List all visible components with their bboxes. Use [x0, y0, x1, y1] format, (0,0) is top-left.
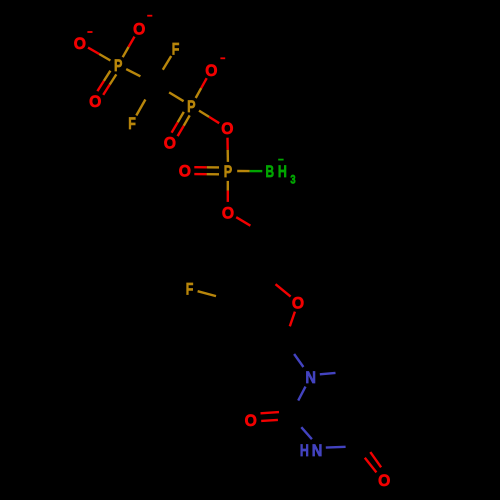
svg-text:N: N	[312, 441, 323, 460]
svg-text:H: H	[300, 441, 309, 460]
svg-text:O: O	[378, 471, 390, 490]
svg-text:O: O	[179, 162, 191, 181]
svg-text:F: F	[172, 40, 180, 59]
svg-text:P: P	[114, 56, 122, 75]
svg-text:F: F	[186, 279, 194, 298]
svg-text:B: B	[266, 162, 275, 181]
svg-text:O: O	[292, 294, 304, 313]
svg-text:O: O	[221, 119, 233, 138]
svg-text:O: O	[89, 92, 101, 111]
svg-text:O: O	[222, 204, 234, 223]
svg-text:O: O	[74, 34, 86, 53]
svg-text:O: O	[205, 61, 217, 80]
svg-text:3: 3	[290, 173, 295, 187]
svg-text:N: N	[305, 368, 316, 387]
svg-text:H: H	[278, 162, 287, 181]
svg-text:P: P	[224, 162, 232, 181]
svg-text:O: O	[164, 134, 176, 153]
svg-text:F: F	[128, 114, 136, 133]
svg-text:O: O	[133, 19, 145, 38]
svg-text:P: P	[187, 97, 195, 116]
svg-text:O: O	[245, 411, 257, 430]
